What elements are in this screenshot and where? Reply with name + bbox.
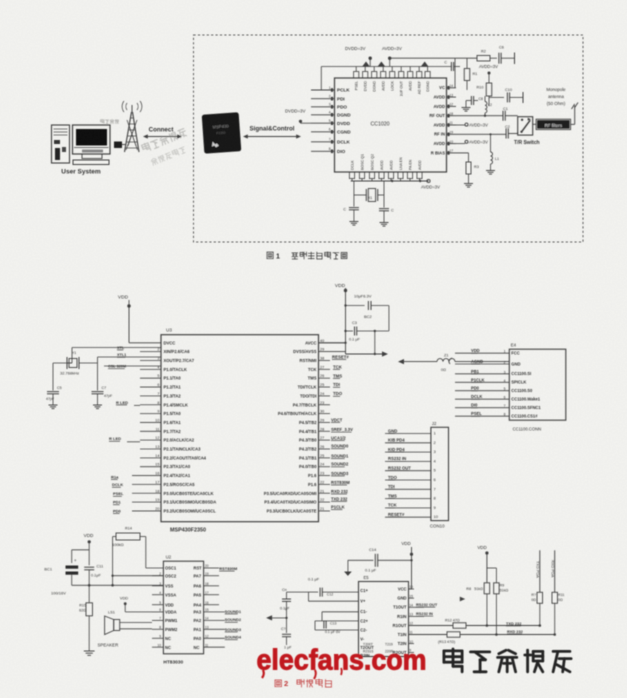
U3 left pin labels bbox=[164, 340, 217, 513]
ground below C7 bbox=[93, 404, 102, 406]
U3 left pin wires bbox=[132, 348, 161, 511]
connector J2 CON10 bbox=[431, 427, 449, 520]
CC1020 bottom pin squares bbox=[349, 172, 422, 181]
E4 pin wires and numbers bbox=[455, 350, 509, 417]
wireless link double arrow bbox=[147, 136, 178, 138]
capacitor C12 0.1uF bbox=[308, 577, 359, 602]
watermark chinese text bbox=[444, 650, 462, 653]
E4 left net labels bbox=[471, 348, 484, 416]
E4 pin labels inside bbox=[511, 351, 541, 419]
ground below R3 bbox=[464, 183, 473, 185]
wire RXD232 row bbox=[409, 629, 557, 644]
resistor R1 bbox=[464, 58, 477, 90]
CC1020 bottom pin labels bbox=[351, 154, 423, 170]
bypass cap triangles top bbox=[362, 62, 428, 67]
bottom bus wire bbox=[351, 180, 429, 182]
J2 pin wires and numbers bbox=[385, 431, 439, 520]
caption figure 2 red bbox=[275, 679, 331, 688]
resistor R10 bbox=[477, 73, 492, 106]
IC U2 HT83030 bbox=[163, 561, 203, 654]
power VDD small pa bbox=[120, 596, 152, 612]
U3 right pin labels bbox=[264, 340, 317, 513]
resistor R15 62ohm bbox=[79, 585, 92, 650]
user system monitor bbox=[73, 125, 111, 165]
capacitor C6 bbox=[490, 46, 515, 65]
ground below C5 bbox=[49, 404, 58, 406]
CC1020 left pin wires bbox=[311, 86, 335, 153]
inductor L1 bbox=[489, 133, 499, 170]
RF filters block bbox=[536, 119, 571, 129]
tower feed box bbox=[114, 142, 122, 149]
ground below R15 bbox=[84, 650, 95, 652]
speaker LS1 bbox=[98, 610, 153, 648]
top supply rail wires bbox=[321, 58, 477, 90]
IC CC1020 bbox=[335, 78, 447, 172]
power VDD bc2 bbox=[335, 283, 347, 343]
resistor R10b bbox=[531, 592, 542, 625]
CC1020 left pin labels bbox=[337, 88, 351, 154]
net label RS232 IN u5 bbox=[414, 611, 433, 616]
ground near C8 bbox=[462, 101, 471, 112]
net label R LED upper bbox=[116, 400, 140, 406]
resistor R2 bbox=[477, 55, 490, 61]
user system PC tower bbox=[52, 125, 70, 163]
U2 pin labels bbox=[165, 566, 202, 650]
wire RF OUT bbox=[456, 115, 504, 117]
resistor R14 100k bbox=[112, 527, 163, 586]
CC1020 top pin squares bbox=[354, 67, 431, 79]
crystal X1 bbox=[354, 181, 384, 202]
DVDD node dot left bbox=[299, 120, 302, 123]
connector E4 CC1100 bbox=[509, 349, 566, 420]
U3 right external net labels bbox=[331, 417, 353, 509]
capacitor C14 0.1uF bbox=[348, 547, 412, 573]
U2 left pin wires bbox=[152, 572, 163, 648]
T/R switch box bbox=[518, 117, 536, 135]
power VDD ht83030 bbox=[72, 533, 94, 565]
IC U5 RS232 transceiver bbox=[359, 582, 409, 657]
U3 right pin wires bbox=[319, 339, 346, 511]
power VDD u5 bbox=[401, 541, 413, 589]
DVDD top node bbox=[369, 57, 372, 60]
CC1020 top pin labels bbox=[355, 80, 430, 96]
ground arrow below C14 bbox=[344, 560, 352, 576]
radio tower antenna bbox=[122, 101, 142, 152]
caption figure 1 bbox=[267, 252, 347, 261]
microcontroller U3 MSP430F2350 bbox=[161, 335, 319, 522]
electrolytic capacitor BC2 10uF bbox=[346, 294, 389, 332]
power AVDD=3V mid bbox=[456, 122, 488, 127]
power label AVDD=3V bottom bbox=[427, 179, 430, 182]
capacitor C3 0.1uF bbox=[346, 321, 389, 354]
inductor L2 bbox=[485, 96, 492, 116]
ground below L1 bbox=[486, 170, 495, 172]
monopole antenna symbol bbox=[571, 103, 578, 125]
resistor R9 51k bbox=[494, 568, 509, 635]
RF link arrow left bbox=[398, 359, 404, 364]
E4 feed hook bbox=[449, 358, 452, 364]
CC1020 right pin labels bbox=[429, 85, 445, 155]
U2 osc2 wire bbox=[111, 575, 163, 577]
resistor R8 51k bbox=[466, 545, 496, 626]
crystal Y1 32.768kHz bbox=[60, 348, 161, 376]
figure 1 system boundary dashed box bbox=[194, 35, 584, 242]
signal double arrow bbox=[247, 136, 297, 138]
capacitor C10 bbox=[489, 88, 523, 103]
net label R LED lower bbox=[109, 436, 140, 442]
load capacitor right of X1 bbox=[379, 195, 394, 222]
capacitor C7 47pF bbox=[92, 363, 113, 405]
resistor R3 bbox=[456, 153, 479, 183]
AVDD top node bbox=[388, 57, 391, 60]
wire to antenna port with arrow bbox=[346, 351, 389, 356]
U5 pin labels bbox=[360, 586, 407, 658]
net label RS232 OUT u5 bbox=[414, 602, 438, 607]
load capacitor left of X1 bbox=[343, 195, 359, 221]
ground right cap bbox=[380, 222, 389, 224]
inductor Z1 0 ohm bbox=[404, 354, 509, 372]
capacitor C13b loop bbox=[315, 612, 359, 634]
capacitor C2 bbox=[505, 125, 518, 138]
U5 right pin wires bbox=[409, 585, 415, 653]
ground left cap bbox=[349, 221, 358, 223]
arrow left rs232 bbox=[266, 615, 288, 620]
wire TXD PDA vertical bbox=[536, 550, 541, 592]
resistor R11 bbox=[552, 592, 564, 634]
watermark elecfans.com bbox=[257, 645, 427, 680]
capacitor C11 0.1uF bbox=[84, 565, 103, 586]
U2 right pin wires bbox=[204, 564, 225, 647]
capacitor C8 bbox=[466, 96, 483, 105]
wire TXD232 row bbox=[409, 619, 542, 629]
wires AVCC DVSS to cap block bbox=[319, 304, 347, 354]
watermark gray text diagonal bbox=[141, 128, 187, 153]
wire RXD PDA vertical bbox=[550, 550, 555, 592]
power VDD microcontroller bbox=[118, 295, 161, 343]
capacitor C5 47pF bbox=[46, 363, 72, 405]
wire RF IN bbox=[456, 133, 506, 135]
transceiver module chip U-black bbox=[202, 112, 242, 153]
capacitor C1 bbox=[503, 107, 518, 121]
capacitor C7 bbox=[444, 61, 460, 72]
CC1020 right pin wires bbox=[447, 84, 457, 155]
power AVDD=3V low bbox=[456, 140, 488, 145]
bottom hidden pins text bbox=[363, 643, 394, 654]
label Monopole antenna bbox=[546, 87, 566, 106]
ground rail wire ht bbox=[72, 584, 164, 587]
watermark gray text top bbox=[101, 119, 105, 121]
electrolytic capacitor BC1 100uF bbox=[44, 558, 78, 596]
arrow rs232 junction bbox=[460, 597, 465, 602]
capacitor C10b bbox=[280, 588, 309, 633]
capacitor C13 1uF bbox=[281, 627, 292, 650]
J2 net labels bbox=[388, 428, 411, 517]
